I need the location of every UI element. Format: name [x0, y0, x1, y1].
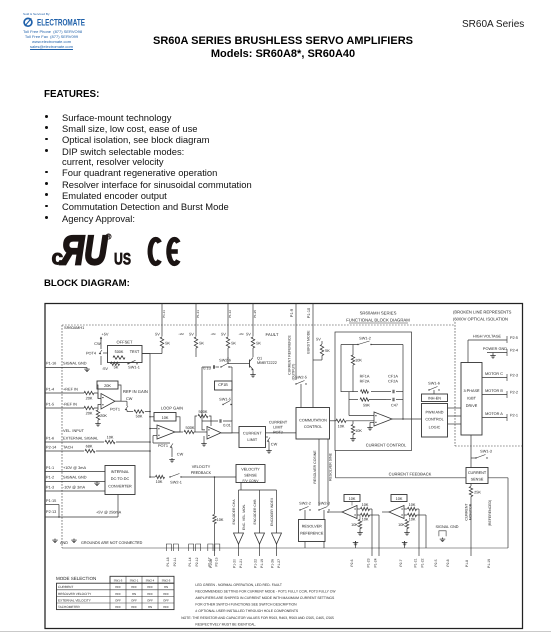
buffer encoder chb	[255, 533, 265, 556]
svg-text:(BROKEN LINE REPRESENTS: (BROKEN LINE REPRESENTS	[453, 310, 512, 315]
svg-text:P2-1: P2-1	[510, 413, 518, 417]
svg-text:TEST: TEST	[130, 350, 140, 354]
svg-text:10K: 10K	[217, 518, 224, 522]
svg-text:P2-6: P2-6	[350, 559, 354, 566]
capacitor 0.01 feedback	[202, 419, 232, 433]
svg-text:5V: 5V	[316, 338, 321, 342]
op-amp current control	[374, 412, 392, 426]
agency approval marks	[44, 228, 189, 273]
node SR60AMHI label	[64, 326, 84, 330]
svg-text:INTERNAL: INTERNAL	[111, 470, 130, 474]
svg-text:EXTERNAL VELOCITY: EXTERNAL VELOCITY	[58, 598, 92, 602]
pin labels resolver cosine	[367, 558, 378, 567]
svg-text:C47: C47	[391, 403, 398, 407]
svg-text:INH-EN: INH-EN	[428, 396, 441, 400]
wire burst mode	[312, 304, 314, 408]
svg-text:+2M: +2M	[178, 333, 184, 336]
net label MOTOR A	[485, 412, 503, 416]
svg-text:ON: ON	[148, 605, 152, 609]
svg-text:10K: 10K	[362, 503, 369, 507]
resistor 10K sine input	[404, 503, 419, 556]
svg-text:FUNCTIONAL BLOCK DIAGRAM: FUNCTIONAL BLOCK DIAGRAM	[346, 318, 410, 323]
svg-text:20K: 20K	[104, 384, 111, 388]
wire to op-amp minus	[94, 393, 101, 399]
svg-text:500K: 500K	[186, 426, 195, 430]
resistor 10K velocity feedback	[156, 475, 165, 484]
svg-text:OFF: OFF	[163, 598, 169, 602]
net label BURST MODE	[307, 330, 311, 354]
net label RESOLVER COSINE	[313, 450, 317, 484]
wire sw1-2 loop	[341, 345, 403, 420]
svg-text:P2-7: P2-7	[399, 559, 403, 566]
wire test net	[142, 348, 162, 354]
svg-text:P1-11: P1-11	[162, 310, 166, 318]
block INTERNAL DC-TO-DC CONVERTER	[105, 466, 135, 495]
wire pwm to igbt phase b	[448, 415, 462, 417]
svg-text:MODE SELECTION: MODE SELECTION	[56, 576, 96, 581]
resistor 10K cosine pulldown	[351, 515, 362, 531]
svg-text:MMBT2222: MMBT2222	[257, 361, 277, 365]
svg-text:RESOLVER VELOCITY: RESOLVER VELOCITY	[58, 592, 92, 596]
svg-text:P1-16: P1-16	[46, 362, 56, 366]
svg-text:OFF: OFF	[147, 585, 153, 589]
net label CURRENT FEEDBACK	[389, 471, 432, 476]
svg-text:AMPLIFIERS ARE SHIPPED IN CURR: AMPLIFIERS ARE SHIPPED IN CURRENT MODE W…	[195, 596, 335, 600]
resistor 10K external	[105, 435, 151, 443]
svg-text:DC-TO-DC: DC-TO-DC	[111, 477, 130, 481]
svg-text:TACHOMETER: TACHOMETER	[58, 605, 80, 609]
pin label P1-19	[487, 559, 491, 568]
svg-text:FEEDBACK: FEEDBACK	[191, 471, 212, 475]
svg-text:-2M: -2M	[239, 333, 244, 336]
svg-text:POT1: POT1	[158, 444, 168, 448]
svg-text:SIGNAL GND: SIGNAL GND	[63, 362, 87, 366]
svg-text:(6000V OPTICAL ISOLATION: (6000V OPTICAL ISOLATION	[453, 317, 508, 322]
resistor RF motif	[341, 390, 376, 393]
power +5V offset	[94, 333, 109, 347]
op-amp resolver sine buffer	[389, 506, 404, 519]
svg-text:20K: 20K	[100, 414, 107, 418]
ground note symbol 2	[60, 539, 77, 545]
svg-text:OFF: OFF	[115, 592, 121, 596]
svg-text:SW1-5: SW1-5	[114, 578, 123, 582]
svg-text:P1-12: P1-12	[228, 310, 232, 318]
svg-text:25K: 25K	[474, 491, 481, 495]
svg-text:CF1A: CF1A	[388, 375, 398, 379]
svg-text:OFF: OFF	[131, 598, 137, 602]
pin P1-4 +REF IN	[46, 388, 78, 392]
svg-text:P2-13: P2-13	[46, 510, 56, 514]
svg-text:AND: AND	[60, 541, 68, 545]
svg-text:ENCODER CHA: ENCODER CHA	[232, 499, 236, 525]
block CURRENT CONTROL	[335, 332, 412, 451]
ground ref divider	[95, 422, 101, 426]
svg-text:P2-3: P2-3	[510, 373, 518, 377]
pin P1-6 VEL INPUT EXTERNAL SIGNAL	[46, 429, 99, 441]
svg-text:REF IN GAIN: REF IN GAIN	[123, 389, 148, 394]
svg-text:F/V CONV: F/V CONV	[242, 479, 259, 483]
svg-text:OFF: OFF	[131, 585, 137, 589]
FEATURES heading	[44, 89, 99, 100]
wire resolver sine	[327, 439, 329, 506]
svg-text:SR60AMH SERIES: SR60AMH SERIES	[360, 311, 397, 316]
svg-text:P1-15: P1-15	[46, 499, 56, 503]
potentiometer POT1 ref	[110, 406, 133, 412]
op-amp U-ref	[101, 394, 115, 410]
svg-text:SW1-2: SW1-2	[359, 336, 371, 340]
wire tach	[45, 450, 84, 452]
pin P1-16 SIGNAL GND	[46, 362, 87, 366]
wire power gnd	[487, 352, 507, 354]
capacitor 0.1u	[213, 365, 219, 368]
svg-text:FAULT: FAULT	[266, 332, 279, 337]
power +5V at P1-11	[155, 333, 162, 337]
svg-text:POT4: POT4	[86, 352, 97, 356]
pin label P1-25	[253, 310, 257, 318]
pin labels P1-18 P2-11	[166, 557, 177, 566]
ground Q1	[250, 373, 256, 377]
svg-text:P1-24: P1-24	[374, 558, 378, 567]
wire cc opamp minus	[349, 415, 374, 417]
wire sine buffer out	[382, 511, 389, 513]
svg-text:EXTERNAL SIGNAL: EXTERNAL SIGNAL	[63, 437, 99, 441]
svg-text:10K: 10K	[362, 518, 369, 522]
svg-text:10K: 10K	[409, 518, 416, 522]
block CURRENT SENSE	[466, 468, 488, 484]
wire top pin P1-11	[161, 304, 163, 335]
wire +10v	[45, 471, 105, 473]
wire enc vel mon	[214, 477, 216, 514]
svg-text:500K: 500K	[199, 410, 208, 414]
svg-text:5V: 5V	[155, 333, 160, 337]
svg-text:REFERENCE: REFERENCE	[300, 532, 324, 536]
wire encoder index	[276, 490, 278, 533]
capacitor CF1B block	[215, 381, 233, 397]
label +5V @ 250mA	[96, 511, 122, 515]
svg-text:P1-26: P1-26	[271, 559, 275, 568]
ground power gnd	[490, 353, 496, 359]
resistor 68K tach	[85, 444, 151, 452]
wire current reference output	[295, 304, 297, 381]
svg-text:+5V @ 250mA: +5V @ 250mA	[96, 511, 122, 515]
Electromate logo block	[23, 12, 123, 49]
svg-text:5V: 5V	[246, 333, 251, 337]
wire feedback to f/v	[214, 476, 236, 478]
pin P1-2 SIGNAL GND	[46, 476, 87, 480]
svg-text:10K: 10K	[162, 416, 169, 420]
resistor 10K sine pulldown	[398, 520, 409, 532]
connector stub pair 1	[166, 544, 178, 551]
label +2M	[178, 333, 184, 336]
label -2M	[239, 333, 244, 336]
switch SW2-2	[299, 501, 311, 519]
svg-text:P1-22: P1-22	[421, 558, 425, 567]
resistor 10K loop feedback box	[154, 413, 176, 422]
svg-text:10K: 10K	[396, 497, 403, 501]
svg-text:10K: 10K	[355, 429, 362, 433]
wire integrator input cap chain	[202, 367, 211, 421]
svg-text:CURRENT CONTROL: CURRENT CONTROL	[366, 442, 407, 447]
wire cc opamp plus ground	[367, 423, 374, 431]
title text SR60AMH SERIES FUNCTIONAL BLOCK DIAGRAM	[346, 311, 410, 324]
op-amp resolver cosine buffer	[342, 506, 357, 519]
svg-text:SIGNAL GND: SIGNAL GND	[436, 525, 459, 529]
svg-text:10K: 10K	[349, 497, 356, 501]
ground bus wire	[62, 547, 508, 549]
svg-text:SW1-6: SW1-6	[428, 381, 440, 385]
power -5V offset	[101, 356, 108, 371]
svg-text:20K: 20K	[86, 411, 93, 415]
svg-text:RESOLVER SINE: RESOLVER SINE	[329, 452, 333, 481]
dashed optical-isolation boundary (low-voltage section)	[62, 325, 455, 548]
switch SW2-6	[219, 359, 232, 382]
ground cosine	[357, 531, 363, 535]
note text broken line represents optical isolation	[453, 310, 512, 322]
wire igbt to current sense	[470, 435, 472, 453]
wire top pin P1-12	[227, 304, 229, 335]
label CW	[126, 397, 133, 401]
net label HIGH VOLTAGE	[473, 334, 502, 338]
svg-text:# OPTIONAL USER INSTALLED THRO: # OPTIONAL USER INSTALLED THROUGH HOLE C…	[195, 609, 299, 613]
svg-text:OFF: OFF	[163, 605, 169, 609]
label 0.1u	[203, 366, 210, 370]
ground velocity plus	[201, 436, 207, 446]
wire encoder cha	[239, 483, 277, 534]
resistor 10K enc vel mon	[213, 515, 224, 557]
svg-text:CONTROL: CONTROL	[304, 425, 322, 429]
pin P2-5	[507, 336, 518, 343]
svg-text:LIMIT: LIMIT	[247, 438, 257, 442]
wire -ref in	[45, 407, 84, 409]
switch SW1-3	[471, 449, 492, 467]
ground signal gnd connector	[440, 538, 446, 542]
svg-text:SR60AMH1: SR60AMH1	[64, 326, 84, 330]
svg-text:POWER GND: POWER GND	[483, 347, 507, 351]
ground note symbol 1	[52, 539, 58, 543]
wire motor c	[482, 377, 507, 379]
resistor 10K commutation	[336, 419, 346, 428]
svg-text:SW2-3: SW2-3	[318, 501, 330, 505]
pin P2-3	[507, 373, 518, 381]
net label REFERENCED	[488, 500, 492, 526]
svg-text:LIMIT: LIMIT	[273, 426, 283, 430]
svg-text:RESPECTIVELY MUST BE IDENTICAL: RESPECTIVELY MUST BE IDENTICAL.	[195, 622, 256, 626]
resistor 10K cc top	[351, 345, 362, 393]
svg-text:5V: 5V	[189, 333, 194, 337]
label LOOP GAIN	[161, 405, 183, 410]
svg-text:P1-1: P1-1	[46, 466, 54, 470]
svg-text:10K: 10K	[409, 503, 416, 507]
wire Q1 emitter	[252, 370, 254, 374]
svg-text:RECOMMENDED SETTING FOR CURREN: RECOMMENDED SETTING FOR CURRENT MODE - P…	[195, 589, 336, 593]
svg-text:SW2-5: SW2-5	[295, 376, 307, 380]
capacitor RF1A RF2A	[360, 375, 370, 384]
svg-text:P1-4: P1-4	[46, 388, 55, 392]
resistor 10K cosine input	[357, 503, 372, 556]
switch SW2-1	[169, 474, 214, 485]
switch SW1-1	[127, 360, 140, 369]
svg-text:SW2-6: SW2-6	[219, 359, 231, 363]
power +5V at P1-12	[221, 333, 228, 337]
svg-text:P2-11: P2-11	[173, 557, 177, 566]
svg-text:VEL. INPUT: VEL. INPUT	[63, 429, 85, 433]
resistor 5K pullup P1-12	[226, 337, 236, 348]
svg-text:RF1A: RF1A	[360, 375, 370, 379]
svg-text:SW2-1: SW2-1	[130, 578, 139, 582]
buffer encoder index	[272, 533, 282, 556]
wire commutation output	[330, 420, 337, 422]
svg-text:ENCODER CHB: ENCODER CHB	[253, 499, 257, 525]
svg-text:OFF: OFF	[131, 605, 137, 609]
label OFFSET	[117, 340, 133, 345]
net label POWER GND	[483, 347, 507, 351]
svg-text:ON: ON	[132, 592, 136, 596]
svg-text:MOTOR B: MOTOR B	[485, 389, 503, 393]
label CURRENT LIMIT POT2	[269, 421, 288, 435]
switch SW1-6	[428, 381, 440, 394]
wire external signal	[45, 441, 104, 443]
power +5V at P1-25	[246, 333, 253, 337]
resistor 10K sine gnd	[404, 513, 426, 548]
resistor 20K -ref	[84, 406, 94, 415]
svg-text:-2M: -2M	[211, 333, 216, 336]
svg-text:OFF: OFF	[147, 592, 153, 596]
block PWM AND CONTROL LOGIC	[422, 404, 448, 438]
ground sine	[404, 531, 410, 535]
resistor 5K pullup P1-11	[160, 337, 170, 348]
title	[0, 35, 551, 47]
svg-text:+5V: +5V	[102, 333, 109, 337]
svg-text:CURRENT: CURRENT	[243, 432, 262, 436]
svg-text:SW1-1: SW1-1	[128, 365, 140, 369]
svg-text:VELOCITY: VELOCITY	[192, 465, 211, 469]
svg-text:P1-6: P1-6	[46, 437, 54, 441]
switch SW2-3	[318, 501, 330, 519]
net label MOTOR C	[485, 372, 503, 376]
svg-text:SIGNAL GND: SIGNAL GND	[63, 476, 87, 480]
power 5V burst pullup	[316, 338, 322, 345]
svg-text:10K: 10K	[156, 480, 163, 484]
wire resolver ref to bus	[305, 542, 324, 549]
pin label current monitor P1-8	[465, 560, 469, 567]
connector stub pair 3	[208, 544, 220, 551]
resistor 5K offset	[111, 362, 120, 369]
svg-text:P1-18: P1-18	[166, 557, 170, 566]
transistor Q1 MMBT2222	[243, 357, 277, 371]
net label ENCODER INDEX	[270, 497, 274, 526]
svg-text:TACH: TACH	[63, 446, 73, 450]
dashed optical-isolation boundary (high-voltage section)	[455, 322, 523, 446]
svg-text:P1-19: P1-19	[260, 559, 264, 568]
op-amp loop gain	[157, 425, 175, 439]
resistor 5K pullup P1-25	[251, 337, 261, 348]
svg-text:P2-2: P2-2	[510, 390, 518, 394]
wire velocity output	[221, 432, 239, 434]
wire pullup stubs	[196, 348, 228, 364]
svg-text:MONITOR: MONITOR	[469, 503, 473, 520]
wire velocity feedback	[149, 476, 155, 478]
potentiometer POT2	[266, 437, 278, 449]
svg-text:500K: 500K	[115, 350, 124, 354]
svg-text:Q1: Q1	[257, 357, 262, 361]
svg-text:0.01: 0.01	[223, 424, 230, 428]
svg-text:ON: ON	[164, 585, 168, 589]
pin label P1-12	[228, 310, 232, 318]
ground signal gnd	[84, 368, 90, 372]
svg-text:CF2A: CF2A	[388, 380, 398, 384]
svg-text:BURST MODE: BURST MODE	[307, 330, 311, 354]
svg-text:PWM AND: PWM AND	[426, 411, 444, 415]
wire p1-15	[45, 505, 59, 518]
pin P1-1 +10V	[46, 466, 86, 470]
ground bottom 1	[350, 541, 358, 567]
block VELOCITY SENSE F/V	[236, 465, 265, 483]
wire encoder chb	[259, 490, 261, 533]
resistor 500K offset	[113, 350, 125, 359]
svg-text:CURRENT: CURRENT	[58, 585, 73, 589]
wire cosine buffer out	[327, 511, 342, 513]
svg-text:SW1-5: SW1-5	[219, 397, 231, 401]
wire -10v	[45, 490, 105, 492]
svg-text:5K: 5K	[231, 342, 236, 346]
svg-text:CW: CW	[271, 443, 278, 447]
svg-text:P2-15: P2-15	[214, 557, 218, 566]
resistor 50K	[134, 410, 144, 419]
svg-text:P1-9: P1-9	[290, 309, 294, 317]
resistor 500K integrator	[195, 410, 211, 432]
wire to velocity amp	[194, 431, 207, 433]
block INH-EN	[422, 394, 448, 402]
wire Q1 base	[228, 357, 243, 364]
svg-text:P2-4: P2-4	[510, 348, 519, 352]
svg-text:10K: 10K	[398, 523, 405, 527]
wire pwm to igbt phase a	[448, 407, 462, 409]
svg-text:IGBT: IGBT	[467, 397, 476, 401]
svg-text:LOOP GAIN: LOOP GAIN	[161, 405, 183, 410]
svg-text:P1-20: P1-20	[233, 559, 237, 568]
svg-text:RESOLVER COSINE: RESOLVER COSINE	[313, 450, 317, 484]
ground bottom 2	[399, 541, 407, 567]
pin labels encoder chb	[254, 559, 265, 568]
wire resolver cosine	[318, 439, 320, 506]
svg-text:CURRENT FEEDBACK: CURRENT FEEDBACK	[389, 471, 432, 476]
svg-text:5V: 5V	[221, 333, 226, 337]
svg-text:P2-5: P2-5	[510, 336, 518, 340]
svg-text:CW: CW	[177, 453, 184, 457]
svg-text:P2-12: P2-12	[195, 557, 199, 566]
svg-text:COMMUTATION: COMMUTATION	[299, 419, 327, 423]
pin label P1-11	[162, 310, 166, 318]
pin labels P1-17 P2-15	[207, 557, 218, 566]
wire current feedback	[336, 451, 467, 478]
svg-text:CURRENT: CURRENT	[269, 421, 288, 425]
svg-text:5K: 5K	[165, 342, 170, 346]
svg-text:HIGH VOLTAGE: HIGH VOLTAGE	[473, 334, 502, 338]
wire into current control	[346, 420, 374, 422]
block RESOLVER REFERENCE	[299, 520, 326, 542]
svg-text:68K: 68K	[86, 444, 93, 448]
svg-text:OFF: OFF	[163, 592, 169, 596]
svg-text:+REF IN: +REF IN	[63, 388, 78, 392]
wire +ref in	[45, 392, 84, 394]
svg-text:RESOLVER: RESOLVER	[302, 525, 322, 529]
svg-text:P1-23: P1-23	[367, 558, 371, 567]
svg-text:P2-5: P2-5	[434, 559, 438, 566]
connector SIGNAL GND	[436, 525, 459, 536]
pin labels signal gnd	[434, 559, 450, 566]
wire offset to summing rail	[142, 353, 150, 355]
svg-text:P2-8: P2-8	[446, 559, 450, 566]
